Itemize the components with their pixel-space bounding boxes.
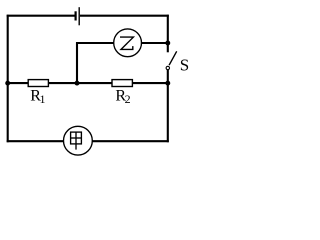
svg-text:S: S <box>180 56 189 75</box>
wire: middle row left segment <box>8 82 29 84</box>
node: left-middle junction <box>5 81 10 86</box>
wire: branch vertical to meter B <box>76 42 78 83</box>
wire: branch horizontal to meter B <box>76 42 114 44</box>
meter B glyph 乙 <box>120 37 133 49</box>
wire: right side upper (corner to switch gap) <box>167 15 169 53</box>
wire: bottom side left of meter <box>7 140 66 142</box>
wire: middle row center segment <box>48 82 112 84</box>
wire: meter B to right side <box>141 42 168 44</box>
node: branch junction on middle wire <box>75 81 80 86</box>
resistor R2 <box>112 80 132 87</box>
switch S: blade <box>169 51 177 65</box>
resistor R1 <box>28 80 48 87</box>
wire: left side <box>7 15 9 143</box>
wire: top side left of battery <box>7 15 75 17</box>
wire: right side lower (below switch to corner) <box>167 70 169 142</box>
battery: short thick plate (negative) <box>74 11 76 20</box>
meter A (甲) circle <box>64 126 93 155</box>
wire: bottom side right of meter <box>90 140 169 142</box>
node: right-upper junction <box>165 41 170 46</box>
node: right-middle junction <box>165 81 170 86</box>
wire: top side right of battery <box>80 15 169 17</box>
meter B (乙) circle <box>114 29 142 57</box>
battery: long thin plate (positive) <box>78 7 80 25</box>
wire: middle row right segment <box>132 82 167 84</box>
meter A glyph 甲 <box>71 132 82 150</box>
switch S: terminal circle <box>166 66 169 69</box>
